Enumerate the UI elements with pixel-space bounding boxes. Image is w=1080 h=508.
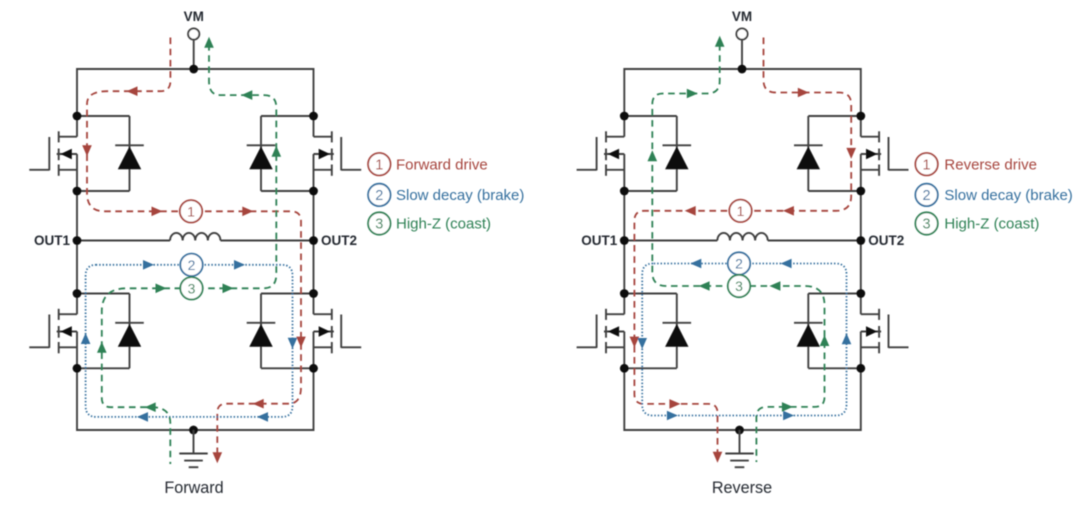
current path 2: slow decay brake loop (blue dotted, reverse circuit): [637, 259, 851, 421]
node: VM junction (forward circuit): [189, 65, 198, 74]
wire: right rail upper segment (forward circuit): [313, 68, 315, 137]
node: OUT1 junction (forward circuit): [73, 236, 82, 245]
wire: right rail lower segment (forward circuit): [313, 332, 315, 432]
svg-text:1: 1: [375, 157, 383, 173]
diode: body diode low-side right (forward circuit): [247, 294, 314, 369]
node: left rail low-side source junction (reverse circuit): [620, 364, 629, 373]
wire: bottom rail (forward circuit): [77, 429, 314, 431]
diode: body diode high-side right (reverse circuit): [794, 116, 861, 191]
current path 3: high-Z coast (green dashed, forward circuit): [97, 37, 281, 464]
node: left rail high-side drain junction (forward circuit): [73, 112, 82, 121]
inductor: motor winding (forward circuit): [170, 233, 220, 241]
node: right rail low-side drain junction (forward circuit): [309, 289, 318, 298]
svg-text:1: 1: [737, 203, 745, 219]
transistor: high-side left MOSFET (forward circuit): [29, 131, 77, 176]
node: OUT2 junction (forward circuit): [309, 236, 318, 245]
node label: circled 1 on reverse drive path (reverse circuit): [729, 200, 751, 222]
svg-text:Slow decay (brake): Slow decay (brake): [396, 187, 524, 204]
current path 1: reverse drive (red dashed, reverse circuit): [630, 38, 856, 463]
wire: left rail upper segment (forward circuit): [76, 68, 78, 137]
wire: left rail middle segment (reverse circuit): [623, 154, 625, 314]
wire: motor winding to OUT2 (forward circuit): [220, 240, 313, 242]
svg-text:Reverse drive: Reverse drive: [944, 156, 1037, 173]
node: right rail high-side drain junction (reverse circuit): [856, 112, 865, 121]
wire: right rail middle segment (forward circuit): [313, 154, 315, 314]
node: OUT2 junction (reverse circuit): [856, 236, 865, 245]
svg-text:OUT2: OUT2: [868, 233, 904, 248]
transistor: low-side right MOSFET (forward circuit): [314, 309, 362, 354]
wire: bottom rail (reverse circuit): [624, 429, 861, 431]
diode: body diode low-side left (forward circuit): [77, 294, 144, 369]
diode: body diode high-side left (forward circuit): [77, 116, 144, 191]
node: left rail low-side source junction (forward circuit): [73, 364, 82, 373]
inductor: motor winding (reverse circuit): [717, 233, 767, 241]
svg-text:3: 3: [188, 280, 196, 296]
wire: right rail middle segment (reverse circuit): [860, 154, 862, 314]
svg-text:OUT2: OUT2: [321, 233, 357, 248]
node: right rail low-side source junction (reverse circuit): [856, 364, 865, 373]
wire: OUT1 to motor winding (reverse circuit): [624, 240, 717, 242]
legend: circled 3 (forward circuit): [368, 212, 390, 234]
transistor: high-side right MOSFET (reverse circuit): [861, 131, 909, 176]
wire: top rail (reverse circuit): [624, 68, 861, 70]
transistor: low-side right MOSFET (reverse circuit): [861, 309, 909, 354]
wire: left rail lower segment (forward circuit): [76, 332, 78, 432]
wire: OUT1 to motor winding (forward circuit): [77, 240, 170, 242]
svg-text:2: 2: [188, 257, 196, 273]
svg-text:High-Z (coast): High-Z (coast): [396, 216, 491, 233]
svg-text:2: 2: [735, 256, 743, 272]
node: right rail high-side drain junction (forward circuit): [309, 112, 318, 121]
svg-text:2: 2: [375, 188, 383, 204]
transistor: high-side right MOSFET (forward circuit): [314, 131, 362, 176]
node label: circled 2 on slow decay path (reverse circuit): [728, 252, 750, 274]
node: VM junction (reverse circuit): [738, 65, 747, 74]
node: right rail low-side drain junction (reverse circuit): [856, 289, 865, 298]
svg-text:OUT1: OUT1: [34, 233, 70, 248]
node label: circled 1 on forward drive path (forward circuit): [180, 200, 202, 222]
VM terminal (forward circuit): [188, 28, 199, 69]
legend: circled 2 (forward circuit): [368, 184, 390, 206]
svg-text:Forward: Forward: [164, 479, 223, 497]
ground (forward circuit): [179, 430, 207, 467]
node label: circled 3 on high-Z path (reverse circuit): [728, 275, 750, 297]
node: left rail high-side drain junction (reverse circuit): [620, 112, 629, 121]
wire: left rail middle segment (forward circuit): [76, 154, 78, 314]
ground (reverse circuit): [725, 430, 753, 467]
legend: circled 2 (reverse circuit): [915, 184, 937, 206]
node: left rail low-side drain junction (forward circuit): [73, 289, 82, 298]
transistor: high-side left MOSFET (reverse circuit): [577, 131, 625, 176]
current path 3: high-Z coast (green dashed, reverse circuit): [648, 36, 830, 462]
legend: circled 1 (reverse circuit): [915, 153, 937, 175]
node: left rail low-side drain junction (reverse circuit): [620, 289, 629, 298]
transistor: low-side left MOSFET (reverse circuit): [577, 309, 625, 354]
VM terminal (reverse circuit): [736, 28, 747, 69]
node: right rail low-side source junction (forward circuit): [309, 364, 318, 373]
node label: circled 2 on slow decay path (forward circuit): [180, 254, 202, 276]
transistor: low-side left MOSFET (forward circuit): [29, 309, 77, 354]
wire: motor winding to OUT2 (reverse circuit): [768, 240, 861, 242]
current path 2: slow decay brake loop (blue dotted, forward circuit): [81, 260, 297, 422]
legend: circled 1 (forward circuit): [368, 153, 390, 175]
svg-text:1: 1: [187, 203, 195, 219]
node: OUT1 junction (reverse circuit): [620, 236, 629, 245]
legend: circled 3 (reverse circuit): [915, 212, 937, 234]
svg-text:VM: VM: [184, 9, 204, 24]
svg-text:VM: VM: [732, 9, 752, 24]
wire: left rail lower segment (reverse circuit): [623, 332, 625, 432]
node: left rail high-side source junction (forward circuit): [73, 187, 82, 196]
node: ground junction (forward circuit): [189, 426, 198, 435]
svg-text:Forward drive: Forward drive: [396, 156, 488, 173]
svg-text:High-Z (coast): High-Z (coast): [944, 216, 1039, 233]
node: right rail high-side source junction (forward circuit): [309, 187, 318, 196]
svg-text:Slow decay (brake): Slow decay (brake): [944, 187, 1072, 204]
svg-text:3: 3: [735, 278, 743, 294]
svg-text:OUT1: OUT1: [581, 233, 617, 248]
svg-text:3: 3: [375, 217, 383, 233]
wire: right rail lower segment (reverse circuit): [860, 332, 862, 432]
wire: top rail (forward circuit): [77, 68, 314, 70]
svg-text:1: 1: [923, 157, 931, 173]
diode: body diode high-side right (forward circuit): [247, 116, 314, 191]
wire: left rail upper segment (reverse circuit): [623, 68, 625, 137]
node: right rail high-side source junction (reverse circuit): [856, 187, 865, 196]
wire: right rail upper segment (reverse circuit): [860, 68, 862, 137]
node label: circled 3 on high-Z path (forward circuit): [180, 277, 202, 299]
diode: body diode low-side left (reverse circuit): [624, 294, 691, 369]
node: left rail high-side source junction (reverse circuit): [620, 187, 629, 196]
current path 1: forward drive (red dashed, forward circuit): [82, 38, 306, 464]
diode: body diode low-side right (reverse circuit): [794, 294, 861, 369]
svg-text:2: 2: [923, 188, 931, 204]
node: ground junction (reverse circuit): [735, 426, 744, 435]
svg-text:Reverse: Reverse: [712, 479, 772, 497]
svg-text:3: 3: [923, 217, 931, 233]
diode: body diode high-side left (reverse circuit): [624, 116, 691, 191]
